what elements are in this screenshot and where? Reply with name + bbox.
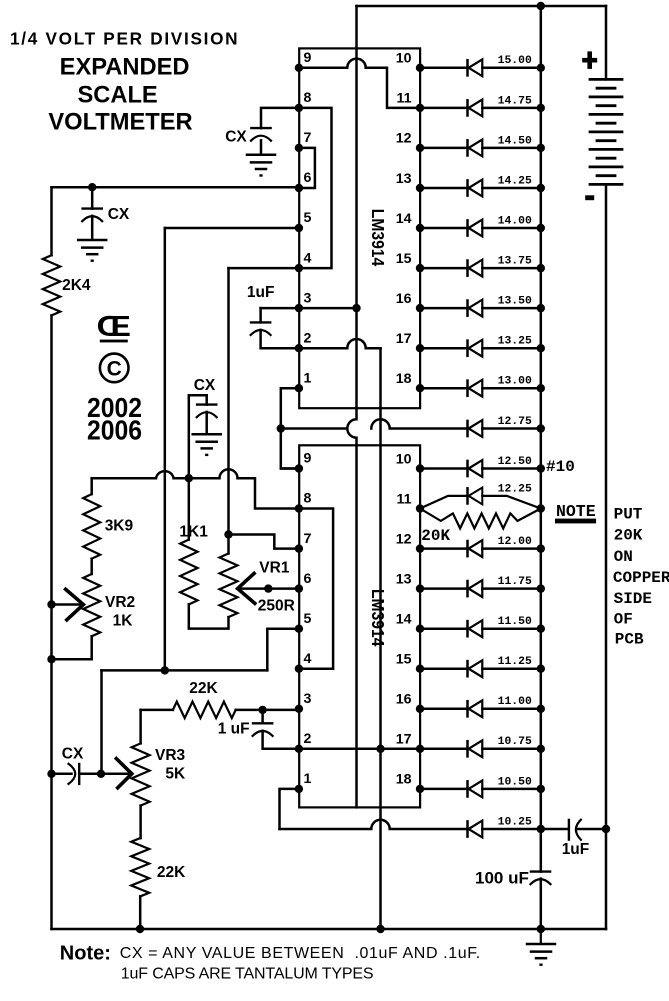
- svg-text:13.00: 13.00: [498, 376, 532, 388]
- title text: [10, 28, 239, 135]
- wire IC1 pin8 bracket pin4: [299, 108, 332, 268]
- wire 1uF IC2 leads: [263, 710, 299, 749]
- svg-text:5: 5: [304, 210, 312, 226]
- svg-text:CX: CX: [194, 377, 216, 394]
- svg-text:1: 1: [304, 370, 312, 386]
- svg-text:16: 16: [396, 291, 412, 307]
- U1 pin 13: [416, 184, 424, 192]
- capacitor 1uF output (bottom right): [562, 820, 590, 858]
- svg-text:15: 15: [396, 251, 412, 267]
- resistor R1 2K4: [43, 255, 91, 315]
- svg-text:LM3914: LM3914: [368, 589, 388, 647]
- node LED bus vertical: [540, 6, 543, 929]
- U2 pin 1: [295, 785, 303, 793]
- wire IC2 pin5 jog: [267, 629, 299, 671]
- svg-text:12.75: 12.75: [498, 416, 532, 428]
- svg-text:17: 17: [396, 331, 412, 347]
- battery plus terminal: [582, 51, 597, 69]
- resistor VR1 250R pot: [220, 554, 295, 618]
- wire VR2 bottom to rail: [52, 636, 92, 659]
- ground (main): [527, 929, 555, 966]
- U2 pin 15: [416, 665, 424, 673]
- wire VR3 top lead: [139, 710, 142, 744]
- U2 pin 11: [416, 504, 424, 512]
- diode D6 13.75: [420, 256, 541, 277]
- svg-text:VR1: VR1: [259, 560, 290, 577]
- diode D3 14.50: [420, 135, 541, 156]
- NOTE label: [555, 502, 596, 523]
- svg-text:250R: 250R: [258, 598, 295, 615]
- svg-text:NOTE: NOTE: [556, 502, 596, 521]
- svg-text:CX: CX: [225, 129, 247, 146]
- svg-text:1: 1: [304, 771, 312, 787]
- diode D8 13.25: [420, 336, 541, 357]
- svg-text:11.50: 11.50: [498, 616, 532, 628]
- svg-text:COPPER: COPPER: [613, 569, 669, 587]
- svg-text:20K: 20K: [614, 527, 643, 545]
- svg-text:14.00: 14.00: [498, 215, 532, 227]
- svg-text:1K: 1K: [113, 613, 134, 630]
- resistor R4 22K: [173, 680, 236, 718]
- wire battery positive: [605, 6, 608, 79]
- wire IC2 pin9 jog: [281, 467, 299, 470]
- svg-text:12.50: 12.50: [498, 456, 532, 468]
- svg-text:18: 18: [396, 772, 412, 788]
- svg-text:Œ: Œ: [97, 311, 132, 343]
- wire bottom ground rail: [52, 928, 607, 931]
- ground (CX pin8 U1): [247, 155, 275, 177]
- svg-text:7: 7: [304, 531, 312, 547]
- U2 pin 10: [416, 464, 424, 472]
- IC U1 LM3914 box: [299, 48, 420, 408]
- battery BT1: [590, 79, 622, 184]
- svg-text:20K: 20K: [421, 527, 450, 545]
- wire left rail: [50, 187, 53, 929]
- svg-text:16: 16: [396, 692, 412, 708]
- wire IC1 pin8 to CX cap: [261, 108, 299, 128]
- node line B vertical: [379, 348, 382, 929]
- diode D2 14.75: [420, 95, 541, 116]
- wire CX left cap leads: [91, 187, 94, 239]
- U1 pin 5: [295, 224, 303, 232]
- diode D1 15.00: [420, 55, 541, 76]
- wire CX mid branch: [189, 395, 207, 539]
- U1 pin 1: [295, 384, 303, 392]
- U1 pin 2: [295, 344, 303, 352]
- capacitor C 1uF (U2): [218, 720, 273, 737]
- svg-text:18: 18: [396, 371, 412, 387]
- U2 pin 12: [416, 544, 424, 552]
- svg-text:10.75: 10.75: [498, 736, 532, 748]
- resistor 20K: [420, 509, 541, 546]
- wire IC1 pin1 jog to 12.75 row: [281, 388, 299, 468]
- svg-text:10.25: 10.25: [498, 816, 532, 828]
- U1 pin 6: [295, 184, 303, 192]
- svg-text:11: 11: [397, 91, 412, 107]
- svg-text:11: 11: [397, 491, 412, 507]
- svg-text:CX: CX: [108, 206, 130, 223]
- diode D16 11.25: [420, 656, 541, 677]
- wire IC1 pin6 to left rail: [52, 186, 299, 189]
- svg-text:6: 6: [304, 571, 312, 587]
- diode D20 10.25: [468, 816, 541, 837]
- svg-text:1K1: 1K1: [179, 524, 208, 541]
- wire IC2 pin2 to pin17 internal: [299, 748, 420, 751]
- svg-text:2K4: 2K4: [62, 277, 91, 294]
- svg-text:13.75: 13.75: [498, 256, 532, 268]
- svg-text:17: 17: [396, 732, 412, 748]
- U1 pin 10: [416, 64, 424, 72]
- svg-text:11.00: 11.00: [498, 696, 532, 708]
- wire VR2 wiper from rail: [52, 603, 84, 606]
- svg-text:2006: 2006: [87, 414, 142, 445]
- diode D18 10.75: [420, 736, 541, 757]
- node line A vertical: [347, 6, 356, 807]
- diode D13 12.00: [420, 536, 541, 557]
- capacitor C 100uF: [475, 869, 551, 888]
- svg-text:#10: #10: [546, 458, 575, 476]
- svg-text:22K: 22K: [189, 680, 218, 697]
- svg-text:13: 13: [396, 171, 412, 187]
- wire IC2 pin8 bracket pin4: [299, 509, 333, 669]
- diode D11 12.50: [420, 456, 541, 477]
- diode D14 11.75: [420, 576, 541, 597]
- svg-text:CX: CX: [62, 746, 84, 763]
- svg-text:4: 4: [304, 651, 312, 667]
- U1 pin 3: [295, 304, 303, 312]
- svg-text:PCB: PCB: [615, 630, 644, 648]
- resistor R3 1K1: [179, 524, 208, 605]
- capacitor CX (mid): [194, 377, 217, 417]
- capacitor CX input (rail): [62, 746, 84, 784]
- U2 pin 6: [295, 584, 303, 592]
- U1 pin 12: [416, 144, 424, 152]
- wire 10.25 row with hop over line B: [280, 820, 467, 829]
- U2 pin 13: [416, 584, 424, 592]
- node line165 vertical: [164, 228, 167, 670]
- svg-text:5K: 5K: [165, 766, 186, 783]
- diode D19 10.50: [420, 776, 541, 797]
- U2 pin 2: [295, 745, 303, 753]
- svg-text:4: 4: [304, 250, 312, 266]
- VR3 wiper arrow: [116, 759, 131, 788]
- U2 pin 3: [295, 705, 303, 713]
- svg-text:SIDE: SIDE: [614, 590, 652, 608]
- svg-text:14.50: 14.50: [498, 135, 532, 147]
- svg-text:SCALE: SCALE: [77, 83, 157, 109]
- wire 3K9 VR2 mid lead: [90, 559, 93, 574]
- wire 3K9 top: [90, 478, 93, 494]
- svg-text:EXPANDED: EXPANDED: [60, 54, 190, 80]
- svg-text:1/4 VOLT PER DIVISION: 1/4 VOLT PER DIVISION: [10, 28, 239, 48]
- svg-text:PUT: PUT: [614, 505, 643, 523]
- copyright symbol: [100, 354, 129, 383]
- svg-text:14: 14: [396, 211, 412, 227]
- svg-text:100 uF: 100 uF: [475, 869, 529, 888]
- wire IC1 pin3 row: [261, 307, 357, 310]
- svg-text:7: 7: [304, 130, 312, 146]
- svg-text:1uF: 1uF: [562, 841, 590, 858]
- diode D4 14.25: [420, 175, 541, 196]
- U2 pin 5: [295, 625, 303, 633]
- svg-text:VR3: VR3: [155, 747, 186, 764]
- svg-text:5: 5: [304, 611, 312, 627]
- svg-text:6: 6: [304, 170, 312, 186]
- U2 pin 17: [416, 745, 424, 753]
- svg-text:12.00: 12.00: [498, 536, 532, 548]
- svg-text:1uF: 1uF: [247, 284, 275, 301]
- svg-text:2: 2: [304, 731, 312, 747]
- wire top V+: [357, 5, 607, 8]
- wire 22K row to IC2 pin3: [141, 709, 299, 712]
- U2 pin 14: [416, 625, 424, 633]
- wire 1uF to IC1 pin2: [261, 330, 299, 348]
- wire IC2 pin1 jog to 10.25 row: [280, 789, 299, 829]
- wire IC1 pin2 hop to line B: [299, 339, 381, 348]
- svg-text:13.50: 13.50: [498, 296, 532, 308]
- wire battery negative bus: [605, 184, 608, 929]
- IC U2 LM3914 box: [299, 445, 420, 807]
- diode D10 12.75: [468, 416, 541, 437]
- svg-text:1 uF: 1 uF: [218, 720, 250, 737]
- svg-text:Note:: Note:: [60, 943, 111, 965]
- svg-text:VR2: VR2: [105, 594, 135, 611]
- wire 12.75 row left: [281, 427, 348, 430]
- svg-text:22K: 22K: [157, 864, 186, 881]
- diode D11 12.25 raised: [420, 488, 541, 509]
- resistor R2 3K9: [83, 494, 133, 559]
- wire 670 horizontal: [102, 669, 268, 672]
- U2 pin 9: [295, 464, 303, 472]
- U1 pin 9: [295, 64, 303, 72]
- svg-text:15.00: 15.00: [498, 55, 532, 67]
- U1 pin 4: [295, 264, 303, 272]
- U1 pin 16: [416, 304, 424, 312]
- diode D17 11.00: [420, 696, 541, 717]
- U2 pin 4: [295, 665, 303, 673]
- U2 pin 16: [416, 705, 424, 713]
- svg-text:VOLTMETER: VOLTMETER: [48, 110, 192, 136]
- svg-text:OF: OF: [614, 610, 633, 628]
- wire IC1 pin4 to line228: [229, 267, 299, 270]
- svg-text:15: 15: [396, 652, 412, 668]
- wire 1uF drop from pin3 wire: [259, 308, 262, 322]
- battery minus terminal: [585, 195, 594, 200]
- U1 pin 14: [416, 224, 424, 232]
- svg-text:ON: ON: [614, 548, 633, 566]
- ground (CX left): [78, 240, 106, 262]
- svg-text:12.25: 12.25: [498, 483, 532, 495]
- wire IC1 pin9 hop to pin11: [299, 59, 420, 108]
- svg-text:14.25: 14.25: [498, 175, 532, 187]
- U1 pin 8: [295, 104, 303, 112]
- svg-text:8: 8: [304, 90, 312, 106]
- svg-text:12: 12: [396, 131, 412, 147]
- capacitor CX (pin8 U1): [225, 128, 271, 146]
- svg-text:CX = ANY VALUE BETWEEN .01uF: CX = ANY VALUE BETWEEN .01uF AND .1uF.: [120, 945, 481, 962]
- svg-text:14: 14: [396, 612, 412, 628]
- wire drop to CX row: [100, 670, 103, 773]
- U1 pin 17: [416, 344, 424, 352]
- svg-text:10: 10: [396, 51, 412, 67]
- U2 pin 18: [416, 785, 424, 793]
- svg-text:10.50: 10.50: [498, 776, 532, 788]
- capacitor C 1uF (U1): [247, 284, 275, 335]
- svg-text:14.75: 14.75: [498, 95, 532, 107]
- VR1 wiper arrow: [238, 573, 255, 603]
- capacitor CX (left): [82, 206, 130, 223]
- ground (CX mid): [193, 434, 221, 456]
- resistor VR2 1K pot: [83, 574, 135, 636]
- U1 pin 7: [295, 144, 303, 152]
- U1 pin 11: [416, 104, 424, 112]
- svg-text:3: 3: [304, 691, 312, 707]
- svg-text:13.25: 13.25: [498, 336, 532, 348]
- svg-text:11.25: 11.25: [498, 656, 532, 668]
- svg-text:C: C: [107, 358, 122, 381]
- wire 10.25 row to 1uF cap and right bus: [541, 828, 606, 831]
- svg-text:8: 8: [304, 491, 312, 507]
- svg-text:12: 12: [396, 531, 412, 547]
- U2 pin 8: [295, 504, 303, 512]
- U1 pin 18: [416, 384, 424, 392]
- U2 pin 7: [295, 544, 303, 552]
- svg-text:9: 9: [304, 50, 312, 66]
- wire IC1 pin7 bracket pin6: [299, 148, 315, 188]
- svg-text:1uF CAPS ARE TANTALUM TYPES: 1uF CAPS ARE TANTALUM TYPES: [121, 966, 374, 983]
- wire CX top cap lead to ground: [260, 140, 263, 154]
- wire CX rail row: [52, 773, 132, 776]
- wire 12.75 row hop over line B: [371, 419, 466, 428]
- svg-text:3K9: 3K9: [105, 518, 134, 535]
- wire VR1 top to IC2 pin7: [229, 535, 299, 549]
- svg-text:11.75: 11.75: [498, 576, 532, 588]
- diode D9 13.00: [420, 376, 541, 397]
- node line228 vertical: [227, 268, 230, 553]
- wire VR1 wiper to IC2 pin6: [238, 587, 299, 590]
- wire VR3 bottom to 22K: [139, 806, 142, 929]
- diode D7 13.50: [420, 296, 541, 317]
- svg-text:LM3914: LM3914: [368, 209, 388, 267]
- svg-text:13: 13: [396, 571, 412, 587]
- wire IC1 pin5 to line165: [165, 227, 299, 230]
- wire 1K1 bottom U to VR1 bottom: [189, 604, 229, 628]
- svg-text:3: 3: [304, 290, 312, 306]
- U1 pin 15: [416, 264, 424, 272]
- wire CX mid cap lead to ground: [205, 412, 208, 434]
- wire mid horizontal 478 with hops: [92, 469, 299, 508]
- resistor R5 22K: [131, 838, 186, 896]
- OE logo: [97, 311, 132, 343]
- diode D15 11.50: [420, 616, 541, 637]
- resistor VR3 5K pot: [132, 743, 186, 805]
- svg-text:9: 9: [304, 451, 312, 467]
- diode D5 14.00: [420, 215, 541, 236]
- note text bottom: [60, 943, 481, 983]
- note PUT 20K ON COPPER SIDE OF PCB: [613, 505, 669, 648]
- VR2 wiper arrow: [66, 589, 84, 620]
- svg-text:10: 10: [396, 451, 412, 467]
- svg-text:2: 2: [304, 330, 312, 346]
